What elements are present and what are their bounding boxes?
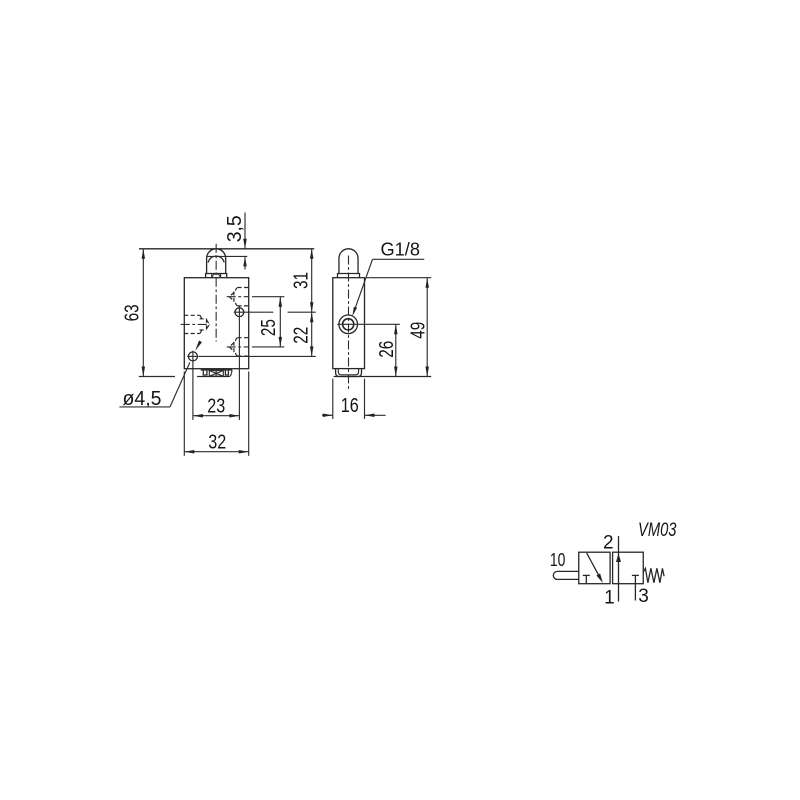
svg-text:10: 10 xyxy=(550,549,566,570)
dimension 3,5 xyxy=(224,213,247,270)
dimension 26 xyxy=(376,324,398,376)
dimension 16 (outside arrows) xyxy=(322,395,386,417)
extension lines for 25 xyxy=(252,297,284,347)
dimension 32 xyxy=(184,432,248,454)
svg-text:31: 31 xyxy=(290,272,312,289)
label VM03 xyxy=(638,520,677,541)
front foot / bottom insert xyxy=(197,370,232,377)
dimension 23 xyxy=(193,395,240,417)
side view centerline xyxy=(348,256,350,390)
port number 10 xyxy=(550,549,566,570)
plunger collar xyxy=(206,274,227,278)
label dia 4,5 with leader xyxy=(119,340,202,409)
port 3 line xyxy=(634,584,636,601)
valve left box xyxy=(579,552,610,584)
dimension 49 xyxy=(407,278,429,377)
svg-text:3: 3 xyxy=(638,586,649,607)
port number 3 xyxy=(638,586,649,607)
port number 2 xyxy=(603,533,614,554)
svg-text:22: 22 xyxy=(290,327,312,344)
svg-text:32: 32 xyxy=(208,432,226,454)
port 2 line with flow arrow xyxy=(616,536,621,601)
svg-text:G1/8: G1/8 xyxy=(381,240,421,260)
plunger actuator capsule xyxy=(553,571,578,579)
front body vertical centerline xyxy=(215,244,217,342)
lower right hidden port xyxy=(227,338,249,356)
spring xyxy=(643,568,664,583)
svg-text:3,5: 3,5 xyxy=(224,215,246,242)
svg-text:1: 1 xyxy=(604,588,615,609)
mounting hole lower left (dia 4,5) xyxy=(187,351,198,362)
extension lines for 23 / 32 xyxy=(184,318,248,456)
plunger dome outer profile xyxy=(207,249,226,274)
dimension 31 xyxy=(290,249,313,357)
svg-text:23: 23 xyxy=(207,395,225,417)
svg-text:26: 26 xyxy=(376,341,398,358)
G1/8 port circles xyxy=(337,315,400,334)
dimension 63 xyxy=(121,249,175,377)
side plunger collar xyxy=(338,274,360,278)
bottom mounting face reference line xyxy=(334,376,432,378)
svg-text:VM03: VM03 xyxy=(638,520,677,541)
extension line 49 top xyxy=(367,277,432,279)
3,5 reference line xyxy=(208,255,248,257)
svg-text:25: 25 xyxy=(258,319,280,336)
blocked port T right box xyxy=(632,575,639,583)
dimension 25 xyxy=(258,297,282,347)
svg-text:2: 2 xyxy=(603,533,614,554)
left hidden port (tapped hole left face) xyxy=(181,315,210,333)
svg-text:16: 16 xyxy=(341,395,359,417)
mounting hole upper right xyxy=(234,307,246,318)
label G1/8 with leader xyxy=(352,240,424,317)
svg-text:49: 49 xyxy=(407,322,429,339)
side view body outline xyxy=(333,278,365,369)
top reference line xyxy=(139,248,314,250)
extension line from hole2 to right xyxy=(199,355,316,357)
side plunger dome xyxy=(339,249,358,274)
blocked port T left box xyxy=(583,575,590,583)
front view body outline xyxy=(184,278,248,369)
valve right box xyxy=(613,552,644,584)
dimension 22 xyxy=(290,312,313,356)
side foot xyxy=(336,369,362,377)
svg-text:63: 63 xyxy=(121,304,143,321)
upper right hidden port xyxy=(227,288,249,306)
extension line from hole1 to right xyxy=(245,311,316,313)
port number 1 xyxy=(604,588,615,609)
extension lines for 16 xyxy=(333,379,365,419)
left box diagonal flow arrow xyxy=(587,553,603,583)
plunger inner arc (pin top, 3.5 travel) xyxy=(208,256,224,262)
